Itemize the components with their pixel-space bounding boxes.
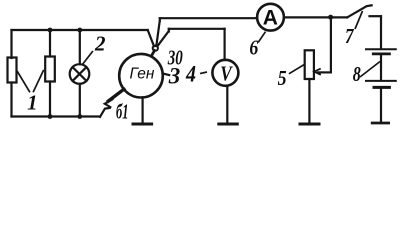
resistor R1b xyxy=(45,57,55,82)
node dot rheostat tap xyxy=(328,15,333,20)
wire terminal 30 to voltmeter bus xyxy=(157,29,169,47)
resistor R1a xyxy=(8,58,17,83)
chassis bar under generator xyxy=(133,123,152,126)
leader label 1 right xyxy=(33,70,44,92)
wire terminal hook to Б1 xyxy=(100,108,110,117)
wire generator bottom lead xyxy=(142,97,144,123)
voltmeter PV 4 xyxy=(212,60,238,86)
node dot bottom lamp xyxy=(77,114,82,119)
node terminal 30 circle xyxy=(153,46,158,51)
leader label 5 xyxy=(289,65,304,74)
lamp HL 2 xyxy=(70,64,90,84)
wire battery bottom lead xyxy=(380,89,382,123)
generator U Ген xyxy=(119,54,163,98)
wire left vertical xyxy=(10,30,12,58)
leader label 6 xyxy=(258,32,265,43)
chassis bar under voltmeter xyxy=(219,123,238,126)
battery inter-cell stem xyxy=(380,55,382,80)
svg-text:Ген: Ген xyxy=(130,66,155,83)
arrowhead wiper on rheostat 5 xyxy=(314,69,320,75)
svg-text:3: 3 xyxy=(168,64,181,89)
chassis bar under battery xyxy=(372,122,388,125)
leader label 4 xyxy=(200,72,207,74)
svg-text:4: 4 xyxy=(185,62,196,87)
wire battery top drop xyxy=(380,16,382,48)
wire ammeter bus xyxy=(160,17,257,19)
wire resistor R1b top lead xyxy=(49,30,51,57)
leader label 8 xyxy=(360,62,380,78)
battery cell1 short plate xyxy=(373,53,389,56)
svg-text:б1: б1 xyxy=(116,99,129,123)
battery cell2 long plate xyxy=(366,80,396,82)
chassis bar under rheostat xyxy=(300,123,319,126)
rheostat R5 body xyxy=(305,50,314,79)
svg-text:8: 8 xyxy=(353,62,361,86)
leader lines xyxy=(17,11,380,92)
battery GB 8 cell1 long plate xyxy=(366,48,396,50)
svg-text:6: 6 xyxy=(249,36,258,60)
wire rheostat bottom lead xyxy=(308,79,310,123)
leader label 1 left xyxy=(17,71,30,92)
lead Б1 from generator (thick, arrow) xyxy=(108,89,124,101)
svg-text:V: V xyxy=(220,61,233,85)
switch S7 right contact xyxy=(370,15,382,17)
wire voltmeter bottom lead xyxy=(226,86,228,123)
wire lamp bottom lead xyxy=(79,84,81,117)
wire terminal 30 up to ammeter bus xyxy=(156,18,160,46)
wire resistor R1b bottom lead xyxy=(49,82,51,117)
wire diagonal from left bus to terminal 30 xyxy=(148,30,154,46)
arrowhead Б1 xyxy=(105,99,113,107)
svg-text:2: 2 xyxy=(94,32,106,56)
wire rheostat drop xyxy=(330,17,332,72)
wire voltmeter bus xyxy=(169,28,225,30)
svg-text:5: 5 xyxy=(278,66,287,90)
node dot bottom R1b xyxy=(48,114,53,119)
svg-text:1: 1 xyxy=(27,90,37,114)
wire voltmeter drop xyxy=(224,29,226,60)
wire top-left bus xyxy=(12,29,148,31)
terminal tick 3 on generator xyxy=(164,74,170,75)
wire bottom-left bus xyxy=(12,115,101,117)
leader label 7 xyxy=(355,11,363,29)
wire lamp top lead xyxy=(79,30,81,64)
leader label 2 xyxy=(82,51,93,65)
node dot top lamp xyxy=(77,28,82,33)
switch S7 blade xyxy=(347,5,371,17)
node dot top R1b xyxy=(48,28,53,33)
ammeter PA 6 xyxy=(257,4,284,31)
wire generator stub to terminal 30 xyxy=(151,51,154,57)
svg-text:7: 7 xyxy=(345,24,355,48)
battery cell2 short plate xyxy=(374,86,389,89)
wire ammeter right to switch xyxy=(284,16,347,18)
wire to rheostat wiper xyxy=(318,71,331,73)
svg-text:A: A xyxy=(263,7,278,30)
